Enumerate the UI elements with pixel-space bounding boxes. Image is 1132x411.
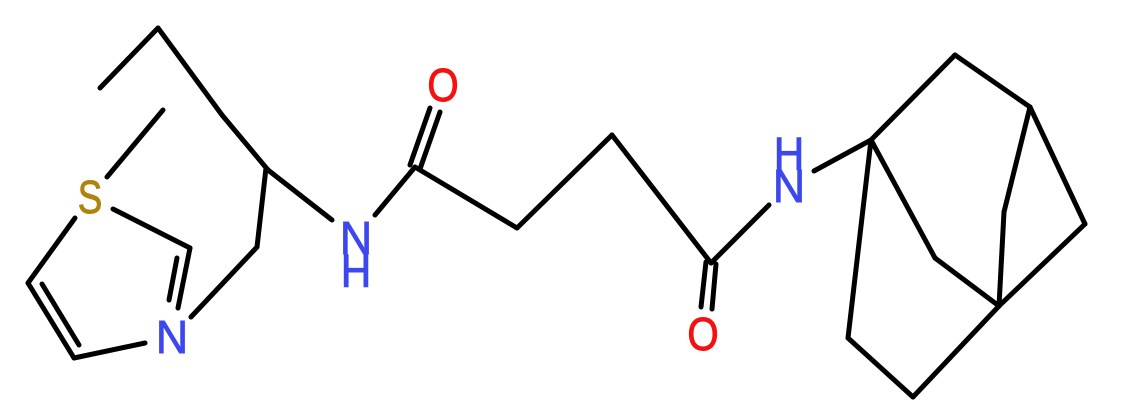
svg-text:H: H xyxy=(341,246,372,297)
svg-text:N: N xyxy=(156,311,188,363)
svg-text:S: S xyxy=(78,171,103,223)
svg-text:O: O xyxy=(427,61,458,112)
svg-text:O: O xyxy=(687,310,718,361)
svg-text:N: N xyxy=(773,160,805,212)
